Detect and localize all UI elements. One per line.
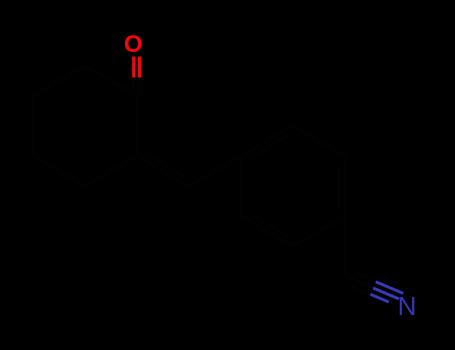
aromatic inner double-bond line [252,136,288,157]
carbonyl C=O double bond [132,57,135,78]
svg-text:O: O [124,31,143,58]
aromatic inner double-bond line [338,165,341,207]
bond para C to CH2 [344,216,347,276]
exocyclic C=C double bond [137,156,189,186]
aromatic inner double-bond line [252,215,288,236]
benzene ring [241,126,345,246]
bond CH to phenyl ipso [189,156,241,186]
cyclohexanone ring [33,66,137,186]
svg-text:N: N [398,291,417,321]
nitrile C#N triple bond [345,276,373,288]
